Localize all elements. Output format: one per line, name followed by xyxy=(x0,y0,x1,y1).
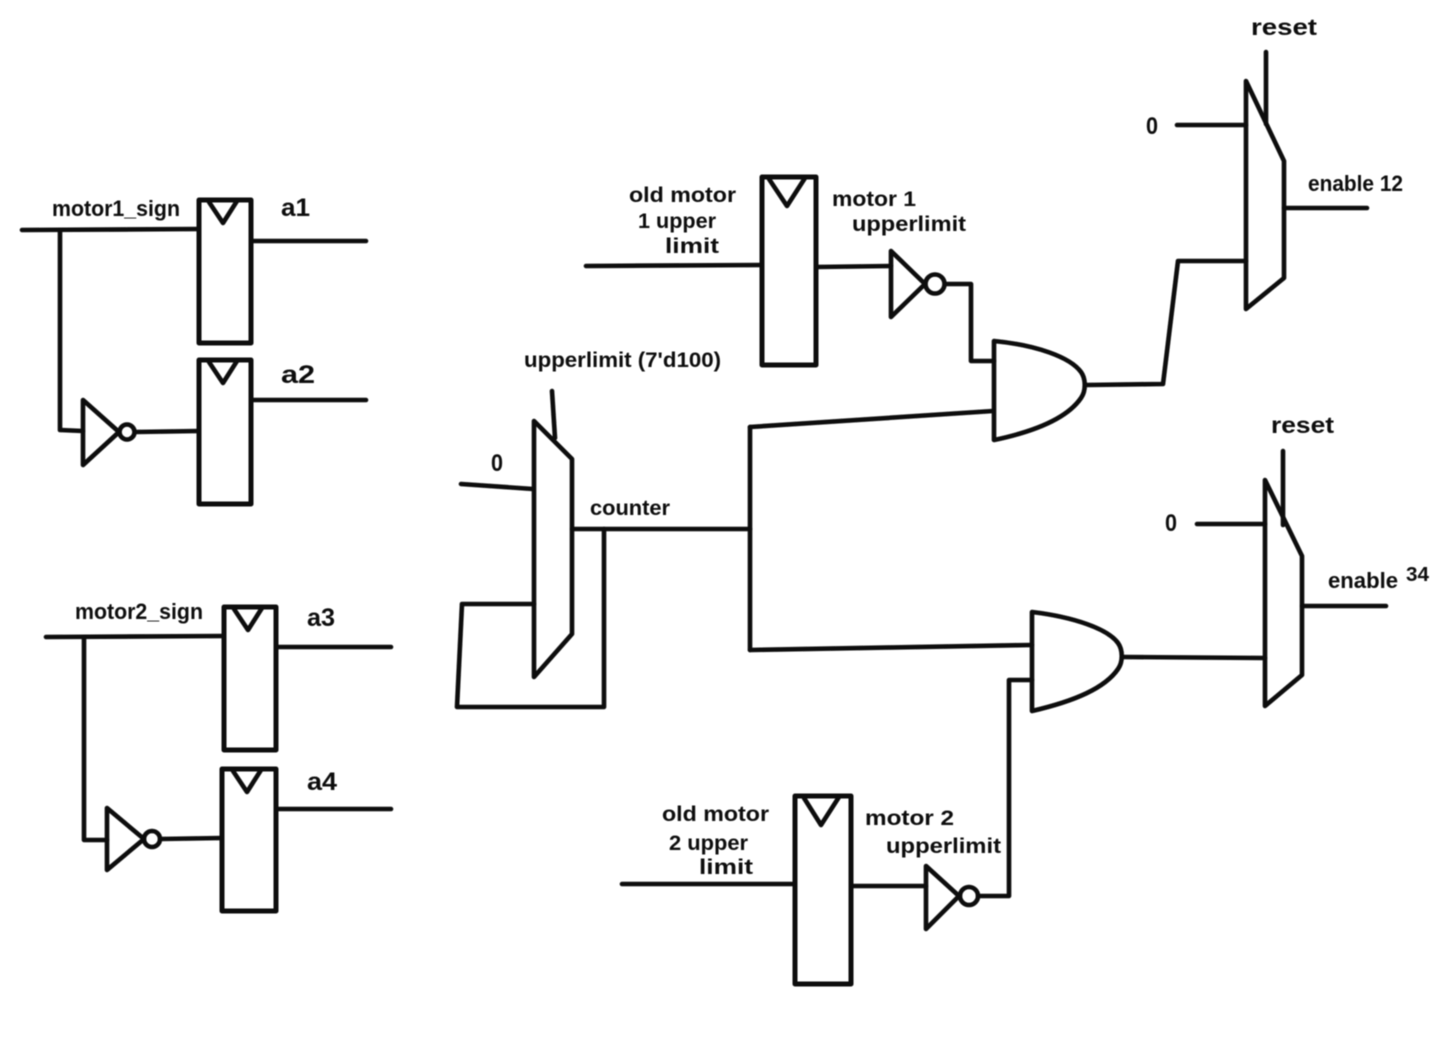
register U9 (old motor 2 upper limit) xyxy=(795,796,851,984)
label motor 2 upperlimit xyxy=(865,807,1001,858)
svg-text:1 upper: 1 upper xyxy=(638,210,716,233)
svg-text:upperlimit: upperlimit xyxy=(852,213,966,236)
svg-text:a1: a1 xyxy=(281,194,310,222)
wire old motor 2 upper limit input xyxy=(622,882,795,887)
svg-text:reset: reset xyxy=(1271,412,1334,438)
inverter U2 xyxy=(83,400,135,465)
svg-text:2 upper: 2 upper xyxy=(669,832,748,855)
svg-text:motor1_sign: motor1_sign xyxy=(52,196,180,221)
register U6 (a4 flip-flop) xyxy=(222,769,276,911)
wire a1 output xyxy=(251,239,366,244)
wire a3 output xyxy=(276,645,391,650)
wire register U7 to inverter U8 xyxy=(816,266,891,267)
wire a2 output xyxy=(251,398,366,403)
wire counter to AND gate G2 xyxy=(750,645,1032,650)
svg-text:a4: a4 xyxy=(307,768,337,796)
inverter U5 xyxy=(107,808,160,870)
wire branch from motor1_sign down to inverter xyxy=(60,230,83,431)
svg-text:motor2_sign: motor2_sign xyxy=(75,599,203,624)
mux M2 (enable12 mux) xyxy=(1246,81,1284,309)
svg-text:counter: counter xyxy=(590,497,670,520)
wire inverter U10 to AND gate G2 xyxy=(978,680,1032,896)
wire branch from motor2_sign down to inverter xyxy=(84,637,107,840)
svg-text:motor 1: motor 1 xyxy=(832,188,916,211)
wire inverter U5 to register U6 xyxy=(160,838,222,839)
svg-text:a2: a2 xyxy=(281,361,315,389)
and gate G1 xyxy=(994,341,1085,440)
wire old motor 1 upper limit input xyxy=(586,265,762,266)
wire a4 output xyxy=(276,807,391,812)
svg-text:motor 2: motor 2 xyxy=(865,807,954,830)
inverter U10 xyxy=(926,866,978,929)
label enable 34 xyxy=(1328,564,1430,593)
wire enable34 output xyxy=(1302,604,1386,609)
svg-text:enable: enable xyxy=(1328,568,1398,593)
wire 0 input to mux M2 xyxy=(1177,123,1246,128)
wire register U9 to inverter U10 xyxy=(851,884,926,889)
wire G2 output to mux M3 xyxy=(1123,657,1265,658)
wire counter feedback loop xyxy=(457,529,604,707)
svg-text:reset: reset xyxy=(1251,14,1317,40)
svg-text:old motor: old motor xyxy=(629,184,736,207)
svg-text:upperlimit (7'd100): upperlimit (7'd100) xyxy=(524,349,721,372)
svg-text:enable 12: enable 12 xyxy=(1308,171,1403,196)
mux M1 (counter mux) xyxy=(534,421,572,677)
label old motor 2 upper limit xyxy=(662,803,769,879)
wire inverter U2 to register U3 xyxy=(135,431,199,432)
register U3 (a2 flip-flop) xyxy=(199,360,251,504)
mux M3 (enable34 mux) xyxy=(1265,480,1302,706)
wire branch vertical node counter xyxy=(748,427,753,650)
wire label pointer xyxy=(552,391,555,438)
wire enable12 output xyxy=(1284,206,1367,211)
wire motor1_sign input xyxy=(22,229,199,230)
label old motor 1 upper limit xyxy=(629,184,736,258)
svg-text:limit: limit xyxy=(699,856,753,879)
wire reset to mux M3 xyxy=(1281,451,1286,525)
wire 0 input to mux M3 xyxy=(1197,522,1265,527)
wire motor2_sign input xyxy=(46,636,224,637)
label motor 1 upperlimit xyxy=(832,188,966,236)
svg-text:upperlimit: upperlimit xyxy=(886,835,1001,858)
inverter U8 xyxy=(891,251,945,317)
wire inverter U8 to AND gate G1 xyxy=(945,284,994,361)
register U7 (old motor 1 upper limit) xyxy=(762,177,816,365)
svg-text:0: 0 xyxy=(491,450,503,477)
svg-text:limit: limit xyxy=(665,235,719,258)
svg-text:0: 0 xyxy=(1165,510,1177,537)
register U4 (a3 flip-flop) xyxy=(224,607,276,750)
wire counter output xyxy=(572,527,750,532)
wire counter to AND gate G1 xyxy=(750,411,993,427)
and gate G2 xyxy=(1032,612,1122,711)
svg-text:34: 34 xyxy=(1406,564,1430,586)
svg-text:a3: a3 xyxy=(307,604,335,632)
register U1 (a1 flip-flop) xyxy=(199,200,251,343)
wire G1 output to mux M2 xyxy=(1087,261,1246,385)
svg-text:0: 0 xyxy=(1146,113,1158,140)
svg-text:old motor: old motor xyxy=(662,803,769,826)
wire reset to mux M2 xyxy=(1264,52,1269,124)
wire 0 input to mux M1 xyxy=(461,484,533,489)
